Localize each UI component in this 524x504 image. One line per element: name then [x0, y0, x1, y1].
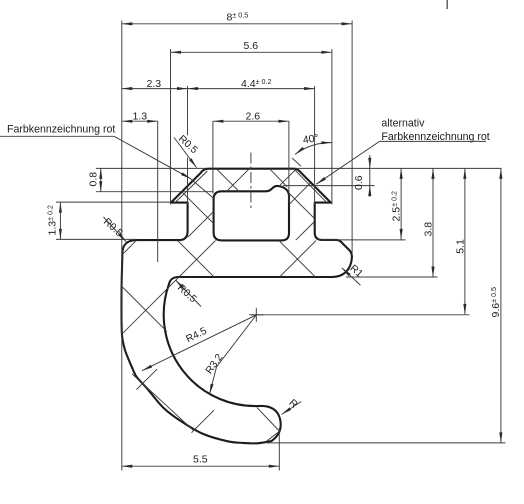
extension line top surface left	[96, 167, 206, 169]
vertical extension line 1.3 right	[157, 121, 159, 262]
dimension 40° angle arc	[295, 143, 332, 155]
extension line 3.8 bottom	[346, 276, 438, 278]
vertical extension line 5.6 right / 40deg reference	[331, 49, 333, 205]
hatch slot corner	[122, 241, 136, 255]
svg-text:R0.5: R0.5	[175, 283, 199, 306]
hatch right chamfer zone	[289, 183, 310, 204]
right label underline	[380, 140, 487, 142]
svg-text:0.8: 0.8	[88, 172, 100, 187]
svg-text:3.8: 3.8	[423, 222, 435, 237]
vertical extension line 4.4 right	[314, 86, 316, 205]
left label underline	[0, 135, 114, 137]
dimension 0.6 (right vertical, outside arrows)	[369, 155, 371, 197]
hatch hook wall upper	[123, 287, 167, 331]
vertical extension line left edge x=8 dim	[121, 21, 123, 471]
extension line slot top left (1.3±0.2)	[56, 201, 171, 203]
dimension 5.1	[464, 168, 466, 314]
chamfer angle extension line	[292, 158, 301, 166]
hole vertical centerline (dash-dot)	[250, 153, 252, 211]
dimension 3.8	[432, 168, 434, 277]
extension line top surface right	[295, 167, 502, 169]
dimension 9.6±0.5	[500, 168, 502, 443]
page frame tick (top right)	[446, 0, 448, 9]
red marking strip line on right chamfer	[295, 170, 327, 203]
svg-text:Farbkennzeichnung rot: Farbkennzeichnung rot	[7, 124, 115, 136]
svg-text:9.6± 0.5: 9.6± 0.5	[489, 287, 502, 318]
hatch left web	[188, 211, 214, 237]
dimension 1.3	[122, 120, 158, 122]
extension line slot bottom left (1.3±0.2)	[56, 238, 137, 240]
svg-text:2.3: 2.3	[147, 78, 162, 90]
R4.5 leader from center	[142, 315, 256, 371]
hatch lower bar 1	[177, 240, 214, 277]
svg-text:8± 0.5: 8± 0.5	[227, 10, 249, 23]
svg-text:40°: 40°	[302, 132, 320, 146]
vertical extension line 2.3/4.4 shared	[187, 86, 189, 135]
hatch right web 1	[289, 194, 314, 219]
hatch hook tip 1	[257, 408, 279, 431]
hatch hook wall cross 1	[137, 369, 158, 389]
profile outline (seal cross-section)	[122, 169, 352, 444]
dimension 8±0.5	[122, 23, 352, 25]
hook arc center cross	[249, 314, 264, 316]
dimension 5.6	[171, 51, 332, 53]
extension line hole step 0.6	[283, 185, 375, 187]
svg-text:4.4± 0.2: 4.4± 0.2	[241, 77, 272, 90]
R0.5 hook leader	[176, 280, 202, 307]
dimension 2.3	[122, 88, 188, 90]
svg-text:0.6: 0.6	[353, 175, 365, 190]
hatch right web 2	[296, 222, 315, 241]
extension line 2.5 bottom	[318, 239, 406, 241]
svg-text:1.3± 0.2: 1.3± 0.2	[46, 205, 59, 236]
hatch top bar ceiling 2	[270, 169, 288, 187]
dimension 0.8 (left vertical)	[100, 168, 102, 191]
right label leader with arrow	[316, 141, 379, 184]
vertical extension line 5.6 left	[170, 49, 172, 205]
dimension 2.6	[213, 120, 289, 122]
central rectangular hole with raised right step	[214, 186, 289, 240]
hatch long bar-to-hook	[123, 240, 216, 333]
red marking strip line on left chamfer	[175, 171, 207, 203]
svg-text:R4.5: R4.5	[184, 326, 208, 346]
R3.2 leader from center	[210, 315, 257, 394]
dimension 2.5±0.2	[400, 168, 402, 239]
svg-text:5.1: 5.1	[455, 239, 467, 254]
extension line 9.6 bottom	[267, 442, 506, 444]
hatch hook tip 2	[267, 433, 278, 442]
hatch hook wall long lower	[132, 374, 193, 431]
R0.5 left leader	[104, 217, 127, 242]
svg-text:5.5: 5.5	[193, 454, 208, 466]
svg-text:alternativ: alternativ	[381, 117, 425, 129]
svg-text:2.6: 2.6	[246, 110, 261, 122]
extension line hole ceiling left (0.8)	[96, 191, 214, 193]
vertical extension line 2.6 right	[288, 121, 290, 203]
dimension 1.3±0.2 (left vertical)	[59, 202, 61, 239]
svg-text:2.5± 0.2: 2.5± 0.2	[390, 191, 403, 222]
vertical extension line 5.5 right	[278, 428, 280, 471]
R1 leader	[342, 268, 361, 285]
dimension 5.5	[122, 465, 279, 467]
R0.5 top leader	[174, 138, 196, 168]
hatch top bar ceiling 3	[227, 169, 250, 192]
svg-text:1.3: 1.3	[133, 110, 148, 122]
dimension 4.4±0.2	[188, 88, 315, 90]
vertical extension line 2.6 left	[212, 121, 214, 194]
hatch top bar ceiling 1	[216, 169, 239, 192]
vertical extension line 8 right	[351, 21, 353, 256]
R leader	[282, 402, 302, 415]
hatch lower bar 2	[279, 241, 315, 277]
hatch top bar left	[182, 192, 214, 224]
extension line 5.1 bottom / center	[252, 314, 470, 316]
hatch hook wall cross 2	[192, 410, 215, 433]
svg-text:5.6: 5.6	[244, 40, 259, 52]
hatch above hole bump	[280, 169, 296, 185]
hatch lower bar 3	[280, 241, 316, 277]
left label leader with arrow	[114, 136, 214, 198]
